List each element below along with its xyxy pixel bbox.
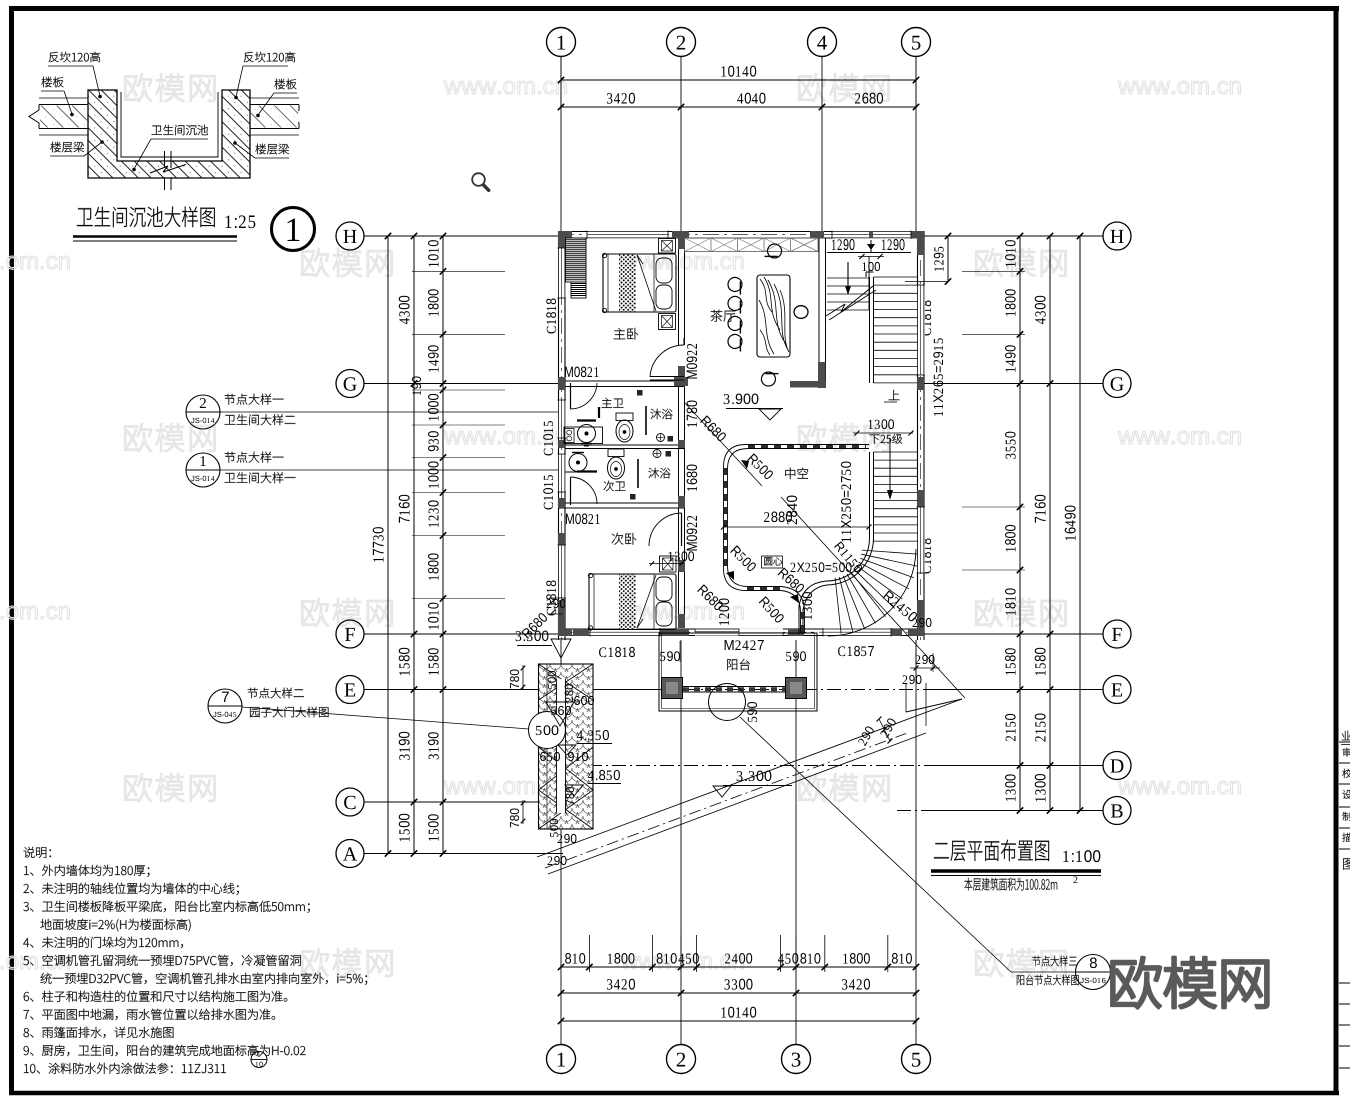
780 dims left of strip [510,669,519,688]
row E D B long dash-dot lines [364,689,659,691]
room label second bath [604,481,626,491]
top dimension chain 3420 4040 2680 [561,106,916,108]
canopy level 3.300 [737,771,772,782]
master bed [603,254,676,312]
axis grid lines [560,57,562,231]
toilet second bath [608,449,624,457]
gate strip dim texts [548,671,556,689]
window/door labels below bottom wall [599,647,635,657]
bottom total 10140 [561,1020,916,1022]
door window labels [565,367,599,378]
1290 1290 stair dim band [827,252,911,254]
bottom dimension detail chain 810.. [561,966,916,968]
fan outer arc R2450 [828,549,916,636]
void railing inner line [728,449,870,634]
sunken pool detail drawing U-section [88,90,250,178]
balcony outline [659,633,817,711]
stair west wall x=822 [818,238,820,388]
room label second bedroom [612,533,637,545]
room label tearoom [711,310,736,322]
title block strip right edge [1339,741,1350,743]
gate level 4.850 [588,770,620,780]
grid bubbles left: H G F E C A [336,222,364,250]
detail slab right [250,104,299,106]
window labels right wall [921,301,931,336]
left subtotal chain 4300 7160 1580 3190 1500 [413,236,415,854]
second bedroom bed [589,574,676,630]
toilet master bath [616,413,633,421]
canopy 290 width dims [879,719,890,741]
right detail chain [1019,236,1021,811]
balcony leader circle [709,684,746,721]
detail number circle 1 [272,208,315,251]
stair lower flight treads [874,451,918,453]
balcony columns [662,678,683,699]
door M0821 second bath arc [570,477,572,505]
gate inner channel [557,679,566,813]
door M0922 second bedroom arc [681,513,683,546]
towel bar master bath [577,419,596,421]
notes circled reference symbol [251,1052,267,1068]
X-braced beam strip over tearoom [685,238,819,252]
right inner 1295 dim [947,236,949,282]
room label master bedroom [614,328,639,340]
door M2427 sliding balcony door [695,629,783,636]
R labels and leader lines [747,453,774,480]
plan exterior walls [558,231,924,233]
towel bar second bath [577,470,597,472]
pendant light tearoom [794,306,808,319]
subtitle floor area [964,878,1057,891]
shower partition master [645,406,647,435]
bath fixtures master [564,427,603,444]
gate strip X braces [539,664,594,700]
left total 17730 [387,236,389,854]
nightstand bottom [659,314,676,330]
interior wall G bath top y=383 [558,380,685,382]
window labels left wall [546,299,556,334]
stair lower rail + curve [869,452,871,538]
big logo bottom right [1112,957,1269,1008]
down arrow upper flight [847,262,849,286]
1295 window dim right [905,281,948,283]
dining table with wood grain [757,275,790,357]
290 dims right of C1857 [913,618,932,627]
main title second floor plan [934,840,1049,862]
stair rail upper [869,277,871,383]
interior wall bedroom/tearoom x=681 [678,238,680,345]
notes text block [24,847,51,858]
left detail dim chain [442,236,444,854]
leader diagonal through yuanxin [684,402,762,486]
detail labels with leaders [49,52,100,62]
bottom subtotal chain 3420 3300 3420 [561,992,916,994]
detail title [77,207,215,227]
void railing dashes [748,445,866,448]
stair cut break line [826,304,845,316]
right subtotal chain 4300 7160 1580 2150 1300 [1049,236,1051,811]
master bedroom wardrobe [566,238,587,282]
detail drain pipe with break [164,151,166,168]
void railing outer line [724,445,870,634]
bath fixtures second [569,454,587,472]
top dimension chain total 10140 [561,79,916,81]
watermark pattern [125,74,216,102]
gate top level triangle [546,702,574,726]
bath divider wall y=446 [565,444,685,446]
level 3.900 tearoom [724,394,759,405]
nightstand second bedroom [660,556,677,572]
callout circle 8 balcony node ref [1076,955,1111,990]
stair labels [841,462,851,542]
stair right flight treads going up [874,276,918,278]
level 3.300 left of plan [516,631,549,642]
right total 16490 [1079,236,1081,811]
gate level 4.350 [577,730,609,740]
magnifier icon [472,173,485,186]
balcony labels [727,659,750,670]
door M0821 master bath arc [570,383,572,409]
grid bubbles bottom: 1 2 3 5 [547,1045,576,1074]
stair upper flight treads [827,277,869,279]
canopy band 3.300 diagonal strip [537,699,962,857]
nightstand top [659,239,676,254]
gate circled 500 [529,712,566,749]
callout circle 7 garden gate ref [208,689,242,723]
detail pit inner lining [121,92,218,157]
bath bottom wall y=505 [558,502,685,504]
callout circle 1 detail ref [186,453,220,487]
garden gate hatched strip [539,664,594,829]
room label master bath [602,398,624,408]
void texts [785,468,808,479]
callout circle 2 detail ref [186,395,220,429]
interior wall corridor x=681 lower [678,387,680,629]
grid bubbles top: 1 2 4 5 [547,28,576,57]
dining chairs [728,277,742,294]
door M0922 master bedroom + arc [650,376,684,378]
shower partition second [637,459,639,488]
stair fan winder treads [862,550,918,554]
grid bubbles right: H G F E D B [1103,222,1131,250]
290 dim bottom-left corner [547,599,566,608]
wall pier blocks [558,231,572,239]
windows [558,248,566,298]
detail slab left [39,104,88,106]
balcony railing [683,686,786,688]
